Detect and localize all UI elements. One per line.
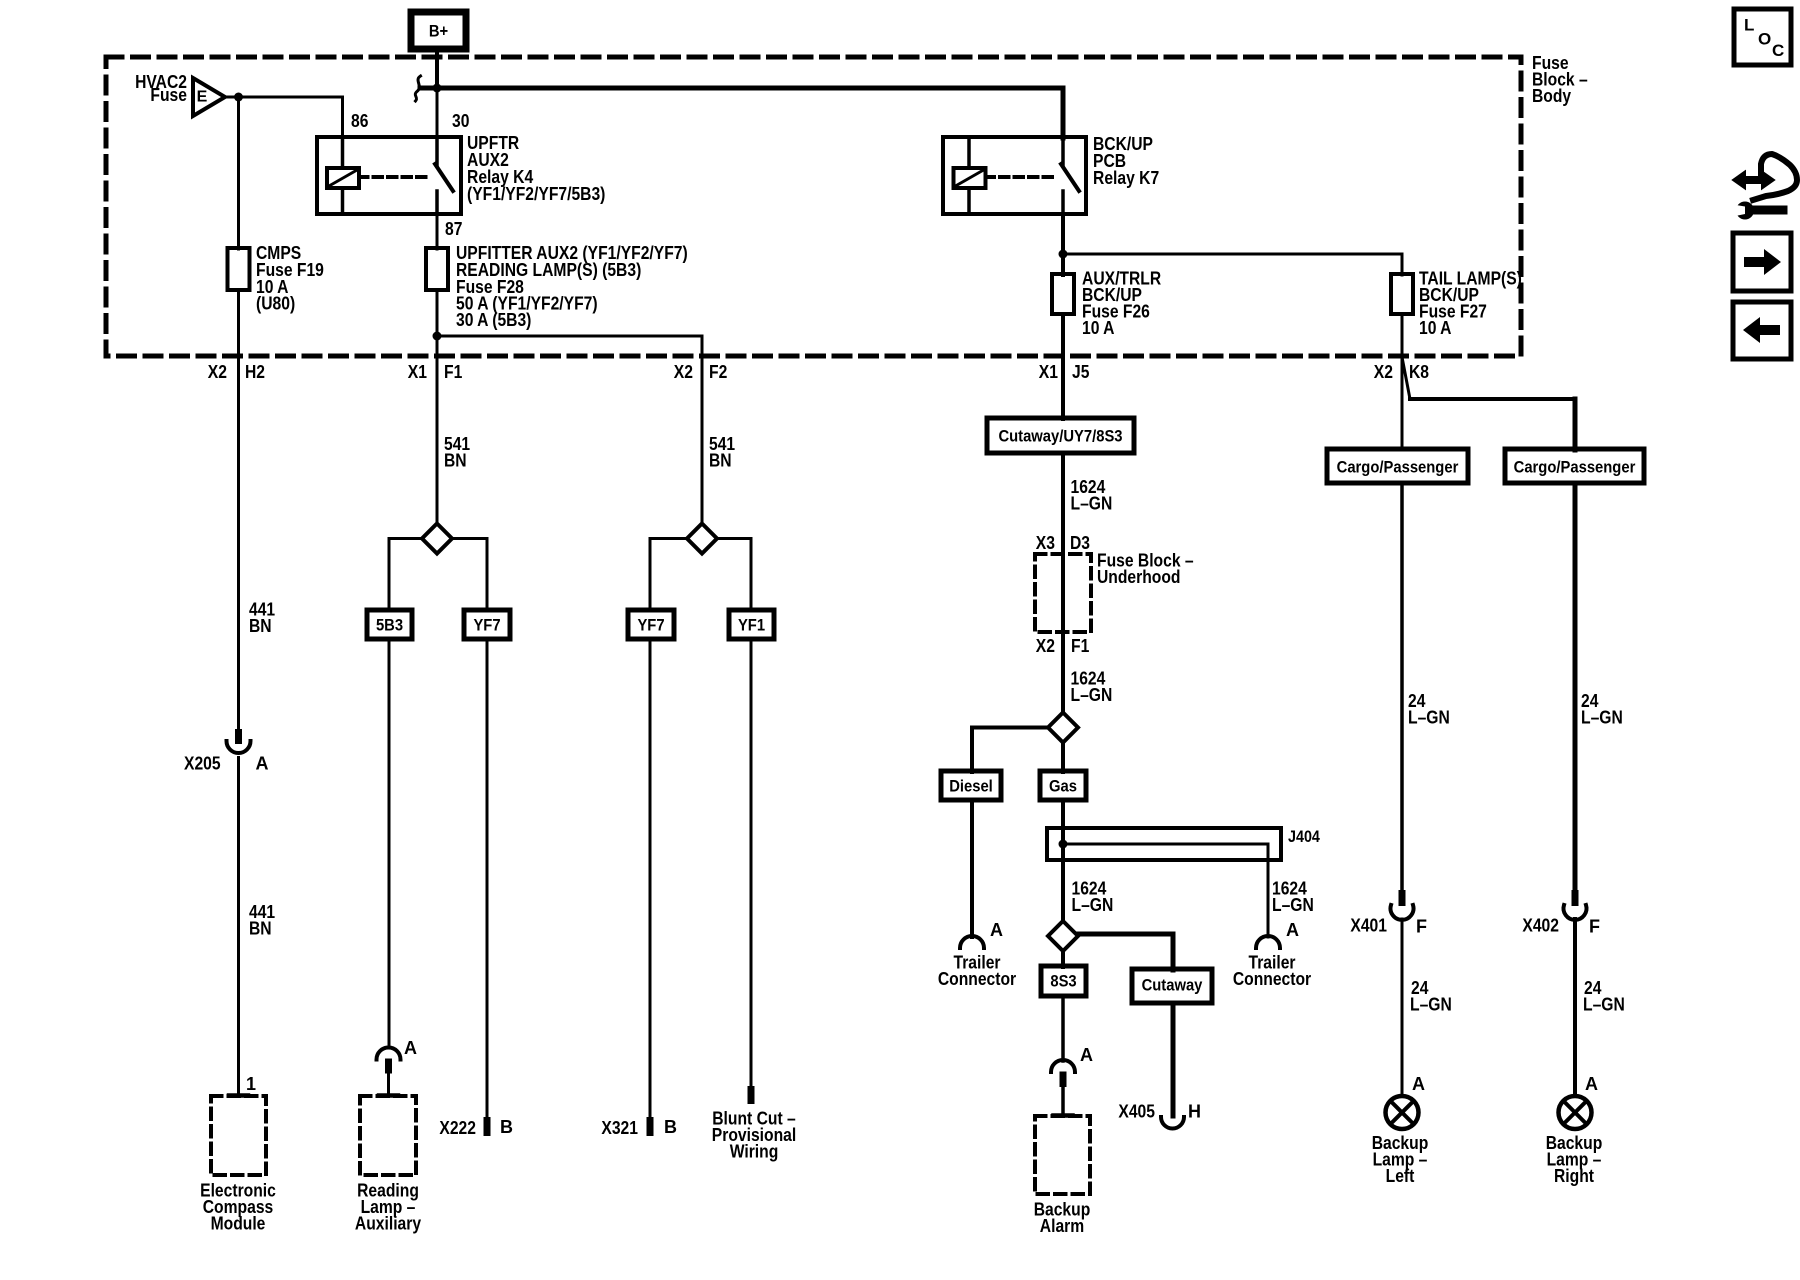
svg-text:E: E — [197, 89, 208, 106]
trailer connector terminal A (right) — [1256, 920, 1299, 948]
B+ power feed box — [411, 12, 466, 49]
wire label 24 L-GN (left lower) — [1410, 978, 1452, 1015]
fuse F27 symbol — [1391, 274, 1413, 314]
wire: diamond to 8S3 — [1061, 951, 1065, 967]
svg-text:A: A — [1080, 1045, 1093, 1065]
svg-text:J5: J5 — [1072, 362, 1089, 382]
svg-text:L: L — [1744, 15, 1754, 34]
option box Cargo/Passenger (right) — [1505, 449, 1644, 483]
svg-text:86: 86 — [351, 111, 368, 131]
option box YF1 — [729, 610, 774, 639]
wire label 441 BN (upper) — [249, 600, 275, 637]
svg-text:H2: H2 — [245, 362, 265, 382]
svg-text:L–GN: L–GN — [1581, 708, 1623, 728]
electronic compass module label — [200, 1181, 276, 1234]
power bus wire to relay K7 — [420, 86, 1063, 91]
svg-text:A: A — [1585, 1074, 1598, 1094]
relay K7 name label — [1093, 134, 1159, 188]
svg-text:(YF1/YF2/YF7/5B3): (YF1/YF2/YF7/5B3) — [467, 184, 605, 204]
X402 label — [1522, 916, 1600, 937]
svg-text:X402: X402 — [1522, 916, 1559, 936]
option box 5B3 — [367, 610, 412, 639]
svg-text:Body: Body — [1532, 86, 1571, 106]
wire label 1624 L-GN (right leg) — [1272, 879, 1314, 916]
backup lamp right label — [1546, 1133, 1603, 1186]
relay K4 switch — [435, 138, 453, 214]
svg-text:YF7: YF7 — [473, 615, 500, 634]
splice diamond 8S3/Cutaway — [1048, 921, 1078, 951]
wire: K8 diagonal branch to right leg — [1402, 357, 1410, 399]
svg-text:A: A — [990, 920, 1003, 940]
wire label 1624 L-GN (mid) — [1071, 669, 1113, 706]
wire label 24 L-GN (right lower) — [1583, 978, 1625, 1015]
svg-text:BN: BN — [709, 451, 732, 471]
wires from diamond to 5B3 / YF7 — [389, 537, 422, 540]
splice diamond diesel/gas — [1048, 713, 1078, 743]
relay K4 coil-switch dashed link — [359, 175, 430, 179]
svg-text:X205: X205 — [184, 754, 221, 774]
wire: 8S3 to backup alarm connector — [1061, 996, 1065, 1061]
X401 label — [1350, 916, 1427, 937]
wire: diamond to Cutaway — [1078, 932, 1173, 937]
reading lamp auxiliary dashed box — [360, 1096, 416, 1175]
svg-text:A: A — [404, 1038, 417, 1058]
fuse block underhood label — [1097, 551, 1194, 588]
option box Cutaway — [1132, 969, 1212, 1003]
option box YF7 (right) — [628, 610, 674, 639]
backup lamp left symbol — [1386, 1096, 1419, 1129]
wire label 441 BN (lower) — [249, 902, 275, 939]
svg-text:Left: Left — [1386, 1166, 1415, 1186]
trailer connector terminal A (left) — [960, 920, 1003, 948]
wire: X205 to compass module — [237, 758, 240, 1095]
wire: YF7 right to X321 — [649, 639, 652, 1119]
svg-text:F: F — [1589, 917, 1600, 937]
LOC reference box — [1734, 9, 1791, 65]
X405 label — [1118, 1102, 1201, 1122]
wire: relay K4 87 to fuse F28 — [436, 214, 439, 249]
wire: Cutaway to X405 — [1171, 1003, 1176, 1116]
svg-text:X2: X2 — [1036, 636, 1055, 656]
wire: diamond to Gas — [1061, 743, 1065, 773]
option box Cutaway/UY7/8S3 — [987, 418, 1134, 453]
in-line connector X401 pin F — [1391, 890, 1414, 920]
fuse block underhood dashed box — [1035, 554, 1091, 632]
svg-text:B: B — [500, 1117, 513, 1137]
trailer connector label (right) — [1233, 953, 1311, 990]
backup alarm pin bar — [1054, 1113, 1073, 1118]
svg-text:10 A: 10 A — [1419, 318, 1452, 338]
wire: Gas to splice pack J404 — [1061, 800, 1065, 830]
svg-text:(U80): (U80) — [256, 294, 295, 314]
junction node F1/F2 branch — [433, 332, 442, 341]
HVAC2 Fuse label — [135, 72, 187, 105]
fuse F28 label — [456, 243, 688, 330]
svg-text:Gas: Gas — [1049, 776, 1077, 795]
svg-text:Auxiliary: Auxiliary — [355, 1214, 421, 1234]
svg-text:B: B — [664, 1117, 677, 1137]
wire: fuse F27 to X2 K8 — [1401, 314, 1404, 357]
svg-text:BN: BN — [249, 919, 272, 939]
svg-text:Connector: Connector — [1233, 969, 1311, 989]
svg-text:87: 87 — [445, 219, 462, 239]
fuse F28 symbol — [426, 248, 448, 290]
svg-text:X2: X2 — [208, 362, 227, 382]
wire: diamond to Diesel — [972, 726, 1048, 730]
backup alarm dashed box — [1035, 1116, 1090, 1194]
right arrow box — [1733, 233, 1791, 291]
svg-text:F: F — [1416, 917, 1427, 937]
Fuse Block - Body dashed boundary box — [106, 57, 1521, 356]
svg-text:L–GN: L–GN — [1410, 995, 1452, 1015]
relay K4 pin labels — [351, 111, 469, 239]
connector label X1 J5 — [1039, 362, 1090, 382]
connector label X3 D3 — [1036, 533, 1090, 553]
svg-text:Fuse: Fuse — [150, 85, 187, 105]
in-line connector X402 pin F — [1564, 890, 1587, 920]
HVAC2 fuse triangle symbol E — [193, 78, 225, 116]
splice diamond (541 BN F2) — [687, 524, 717, 554]
J404 internal wire to right leg — [1063, 843, 1268, 846]
svg-text:8S3: 8S3 — [1050, 971, 1076, 990]
svg-text:X401: X401 — [1350, 916, 1387, 936]
option box Diesel — [941, 771, 1001, 800]
wires from diamond to YF7 / YF1 — [650, 537, 687, 540]
svg-text:Cargo/Passenger: Cargo/Passenger — [1514, 457, 1636, 476]
connector X405 H cup — [1161, 1117, 1184, 1129]
svg-text:O: O — [1758, 29, 1771, 48]
svg-text:Wiring: Wiring — [730, 1142, 779, 1162]
wire: branch to fuse F27 — [1063, 253, 1402, 256]
svg-text:Cutaway: Cutaway — [1142, 975, 1203, 994]
svg-text:F1: F1 — [1071, 636, 1089, 656]
wire: cutaway box to underhood fuse block — [1061, 453, 1065, 713]
svg-text:A: A — [1412, 1074, 1425, 1094]
wire label 1624 L-GN (left leg) — [1072, 879, 1114, 916]
wire: branch to X2 F2 — [437, 335, 702, 338]
svg-text:30: 30 — [452, 111, 469, 131]
svg-text:Relay K7: Relay K7 — [1093, 168, 1159, 188]
relay K7 coil — [954, 137, 986, 214]
wire: fuse F19 to X205 — [237, 290, 240, 730]
in-line connector X205 pin A — [227, 729, 251, 753]
svg-text:Module: Module — [211, 1214, 266, 1234]
blunt cut provisional wiring terminal — [712, 1086, 796, 1162]
trailer connector label (left) — [938, 953, 1016, 990]
wire: Diesel to trailer connector — [970, 800, 974, 937]
wire label 541 BN (F2) — [709, 434, 735, 471]
junction node in J404 — [1059, 840, 1068, 849]
svg-text:L–GN: L–GN — [1272, 895, 1314, 915]
relay K7 coil-switch dashed link — [986, 175, 1057, 179]
svg-text:Alarm: Alarm — [1040, 1216, 1084, 1236]
electronic compass module dashed box — [211, 1096, 266, 1175]
off-page squiggle on bus — [415, 76, 420, 101]
svg-text:B+: B+ — [429, 21, 448, 40]
backup alarm label — [1034, 1200, 1091, 1237]
svg-text:L–GN: L–GN — [1071, 494, 1113, 514]
svg-text:F1: F1 — [444, 362, 462, 382]
option box YF7 (left) — [464, 610, 510, 639]
wire through J404 — [1061, 830, 1065, 922]
svg-text:BN: BN — [444, 451, 467, 471]
connector label X2 F2 — [674, 362, 728, 382]
svg-text:L–GN: L–GN — [1072, 895, 1114, 915]
connector label X2 H2 — [208, 362, 265, 382]
reading lamp pin bar — [379, 1093, 398, 1098]
fuse F26 label — [1082, 269, 1161, 339]
svg-text:X2: X2 — [674, 362, 693, 382]
relay K4 name label — [467, 133, 605, 204]
vehicle navigation icon — [1733, 154, 1797, 220]
svg-text:K8: K8 — [1409, 362, 1429, 382]
connector label X2 F1 — [1036, 636, 1090, 656]
relay K7 box — [943, 137, 1086, 214]
wire label 1624 L-GN (upper) — [1071, 477, 1113, 513]
Fuse Block - Body label — [1532, 53, 1588, 106]
backup lamp right symbol — [1559, 1096, 1592, 1129]
svg-text:J404: J404 — [1288, 828, 1321, 846]
svg-text:Cargo/Passenger: Cargo/Passenger — [1337, 457, 1459, 476]
connector A at reading lamp — [377, 1048, 401, 1095]
wire: fuse F26 to cutaway box — [1061, 314, 1065, 419]
fuse F26 symbol — [1052, 274, 1074, 314]
blunt terminal X222 B — [439, 1117, 513, 1138]
wire: cargo left to X401 — [1400, 483, 1404, 892]
option box 8S3 — [1041, 966, 1086, 996]
wire: B+ down to bus — [435, 49, 439, 89]
svg-text:X3: X3 — [1036, 533, 1055, 553]
svg-text:H: H — [1188, 1102, 1201, 1122]
wire: cargo right to X402 — [1573, 483, 1578, 892]
wire: relay K7 87 down — [1061, 214, 1065, 275]
wire: YF7 left to X222 — [486, 639, 489, 1119]
svg-text:L–GN: L–GN — [1583, 995, 1625, 1015]
svg-text:F2: F2 — [709, 362, 727, 382]
svg-text:Cutaway/UY7/8S3: Cutaway/UY7/8S3 — [998, 426, 1122, 445]
svg-text:Underhood: Underhood — [1097, 567, 1181, 587]
wire: X402 to backup lamp right — [1573, 919, 1577, 1096]
wire: HVAC2 node down to fuse F19 — [237, 97, 240, 249]
svg-text:Right: Right — [1554, 1166, 1594, 1186]
svg-text:X405: X405 — [1118, 1102, 1155, 1122]
junction node B+ bus — [433, 84, 442, 93]
wire: fuse F28 down to splice diamond — [436, 290, 439, 524]
svg-text:1: 1 — [246, 1074, 256, 1094]
splice diamond (541 BN F1) — [422, 524, 452, 554]
svg-text:Connector: Connector — [938, 969, 1016, 989]
connector label X2 K8 — [1374, 362, 1429, 382]
electronic compass module pin bar — [229, 1093, 248, 1098]
blunt terminal X321 B — [601, 1117, 677, 1138]
splice pack J404 box — [1047, 828, 1281, 860]
option box Gas — [1040, 771, 1086, 800]
fuse F27 label — [1419, 269, 1522, 339]
reading lamp auxiliary label — [355, 1181, 421, 1234]
connector A at backup alarm — [1051, 1060, 1075, 1114]
fuse F19 label — [256, 243, 324, 314]
wire: YF1 to blunt cut — [750, 639, 753, 1087]
svg-text:BN: BN — [249, 616, 272, 636]
wire: K8 to cargo/passenger left — [1401, 357, 1404, 450]
svg-text:10 A: 10 A — [1082, 318, 1115, 338]
svg-text:C: C — [1772, 41, 1784, 60]
junction node at HVAC2 branch — [234, 93, 243, 102]
svg-text:X1: X1 — [1039, 362, 1058, 382]
wire label 24 L-GN (left upper) — [1408, 691, 1450, 728]
relay K4 coil — [327, 137, 359, 214]
svg-text:YF1: YF1 — [738, 615, 765, 634]
wire: X401 to backup lamp left — [1401, 919, 1404, 1096]
svg-text:X2: X2 — [1374, 362, 1393, 382]
svg-text:L–GN: L–GN — [1408, 708, 1450, 728]
svg-text:D3: D3 — [1070, 533, 1090, 553]
svg-text:X321: X321 — [601, 1118, 638, 1138]
fuse F19 CMPS symbol — [228, 248, 250, 290]
relay K7 switch — [1061, 138, 1079, 214]
svg-text:A: A — [1286, 920, 1299, 940]
wire: 5B3 to reading lamp connector — [388, 639, 391, 1048]
wire label 24 L-GN (right upper) — [1581, 691, 1623, 728]
svg-text:30 A (5B3): 30 A (5B3) — [456, 310, 531, 330]
X205 label — [184, 754, 269, 774]
svg-text:L–GN: L–GN — [1071, 685, 1113, 705]
svg-text:5B3: 5B3 — [376, 615, 403, 634]
wire: bus down to relay K4 pin 30 — [436, 88, 439, 138]
left arrow box — [1733, 302, 1791, 359]
backup lamp left label — [1372, 1133, 1429, 1186]
svg-text:X222: X222 — [439, 1118, 476, 1138]
relay K4 box — [317, 137, 461, 214]
svg-text:A: A — [256, 754, 269, 774]
svg-text:Diesel: Diesel — [949, 776, 993, 795]
svg-text:YF7: YF7 — [637, 615, 664, 634]
option box Cargo/Passenger (left) — [1327, 449, 1468, 483]
connector label X1 F1 — [408, 362, 463, 382]
wire: HVAC2 to relay K4 pin 86 — [225, 96, 343, 99]
wire label 541 BN (F1) — [444, 434, 470, 471]
svg-text:X1: X1 — [408, 362, 427, 382]
junction node to tail lamp fuse — [1059, 250, 1068, 259]
